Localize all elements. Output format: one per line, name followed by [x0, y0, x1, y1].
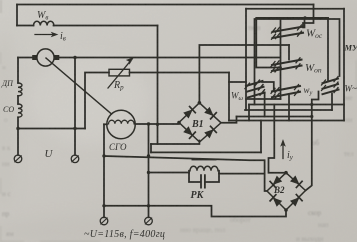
wire y17.9 drop at x304 — [304, 18, 306, 28]
wire B1 top riser — [199, 45, 289, 103]
wire Wω to Wу link — [262, 82, 274, 91]
node x148 bus1 — [147, 154, 150, 157]
wire РК right lead — [219, 173, 265, 175]
wire Rp to right — [130, 72, 230, 74]
inductor РК humps — [190, 166, 218, 171]
wire B2 bottom to bottom bus — [104, 206, 286, 217]
wire top bus — [17, 4, 314, 6]
wire B2 right riser — [306, 105, 312, 191]
node СГО-B1 wire x157 — [156, 123, 159, 126]
node B2 bottom — [284, 208, 288, 212]
node U bus mid — [73, 127, 76, 130]
wire bus2 — [151, 151, 261, 153]
wire СГО left lead — [104, 123, 107, 125]
winding Wос — [272, 25, 304, 39]
wire МУ left core rail — [280, 20, 282, 100]
wire Rp riser — [85, 73, 109, 129]
inductor Wв lead wires — [17, 25, 158, 27]
terminal circle 3 — [100, 217, 108, 225]
terminal circle 4 — [145, 217, 153, 225]
resonant circuit РК box sides and bottom — [189, 171, 219, 182]
diode B1 top-right — [204, 107, 216, 119]
wire top-left drop — [16, 5, 18, 26]
generator СГО circle — [107, 110, 135, 138]
node x148 РК lead — [147, 171, 150, 174]
wire Wω right lead drop — [264, 93, 266, 117]
wire bus y99 — [246, 98, 281, 100]
wire x148 vertical — [148, 124, 150, 217]
rectifier B2 diamond — [267, 173, 306, 210]
wire x328 drop to W~ — [327, 18, 329, 81]
wire top-right corner down to Wос right lead — [303, 5, 314, 28]
node x311 bus104 — [310, 103, 313, 106]
node x104 bottom bus — [102, 204, 105, 207]
terminal circle 2 — [71, 155, 79, 163]
wire bus1 to B2 left — [104, 156, 267, 191]
wire bus y109 — [245, 109, 332, 111]
machine M armature circle — [37, 49, 54, 66]
diode B2 bottom-left — [270, 195, 282, 207]
winding W~ — [322, 77, 339, 95]
node armature junction — [73, 56, 76, 59]
wire СГО right lead to B1 — [135, 123, 179, 125]
rectifier B1 diamond — [179, 103, 221, 142]
arrow iу — [282, 144, 284, 159]
wire Wв vertical drop — [157, 26, 159, 125]
terminal stub 2 — [74, 129, 76, 156]
wire Wоп upper feed — [288, 45, 290, 60]
wire x229 drop — [228, 73, 230, 121]
wire bus y104 — [249, 104, 344, 106]
diode B1 bottom-left — [183, 126, 195, 138]
wire B1 bottom feed — [151, 141, 199, 145]
wire U bus — [18, 128, 85, 130]
wire x246 drop to Wω — [245, 9, 247, 110]
wire Wу right lead drop — [288, 95, 290, 121]
machine shaft link to СГО — [46, 58, 112, 114]
resistor Rp box — [109, 69, 130, 76]
wire B2 top step — [269, 105, 286, 173]
wire bus2 right riser — [260, 121, 262, 153]
winding ДП humps — [18, 83, 22, 96]
node B1 top — [198, 101, 202, 105]
wire B1 right lead — [221, 117, 237, 123]
diode B1 bottom-right — [204, 126, 216, 138]
wire y104 left drop — [248, 105, 250, 121]
wire bus2 left riser — [150, 144, 152, 152]
generator СГО inner coil — [109, 120, 135, 124]
wire armature vertical — [74, 58, 76, 129]
diode B2 bottom-right — [290, 195, 302, 207]
inductor Wв humps — [34, 21, 54, 25]
node y114 x311 — [310, 115, 313, 118]
wire top second bus — [246, 8, 344, 10]
capacitor РК plates — [201, 175, 205, 187]
diode B2 top-left — [270, 176, 282, 188]
wire right edge vertical — [343, 9, 345, 121]
arrow iв — [35, 34, 55, 36]
node СГО-B1 wire x148 — [147, 122, 150, 125]
winding Wоп — [271, 58, 302, 73]
machine brushes — [32, 55, 37, 60]
wire Wв step to B1 bottom — [157, 124, 159, 144]
wire СГО left vertical — [103, 124, 105, 217]
wire W~ left lower lead staircase — [312, 92, 319, 105]
diode B2 top-right — [290, 175, 302, 187]
wire bus y114 — [237, 116, 312, 118]
winding Wω — [245, 80, 265, 97]
node third bus x305 — [303, 16, 306, 19]
wire machine right lead to МУ — [59, 57, 279, 59]
winding СО humps — [18, 104, 22, 117]
diode B1 top-left — [183, 107, 195, 119]
МУ box outline — [255, 19, 340, 105]
terminal stub left — [17, 129, 19, 156]
node x104 bus1 — [102, 154, 105, 157]
node B2 top — [284, 171, 288, 175]
node U bus left — [16, 127, 19, 130]
wire РК left lead — [149, 172, 190, 174]
wire machine left lead — [18, 57, 32, 59]
wire x229 to Wω — [229, 81, 246, 83]
node B1 left — [177, 121, 181, 125]
wire top third bus — [256, 17, 328, 19]
wire left stator branch vertical — [17, 58, 19, 129]
core bar РК — [192, 159, 217, 161]
wire bus y120 — [229, 120, 344, 122]
resistor Rp arrow — [108, 62, 130, 89]
wire W~ right lead riser — [331, 94, 333, 111]
wire x256 drop — [256, 18, 281, 68]
node x148 bottom bus — [147, 204, 150, 207]
terminal circle 1 — [14, 155, 22, 163]
winding Wу — [271, 85, 300, 100]
